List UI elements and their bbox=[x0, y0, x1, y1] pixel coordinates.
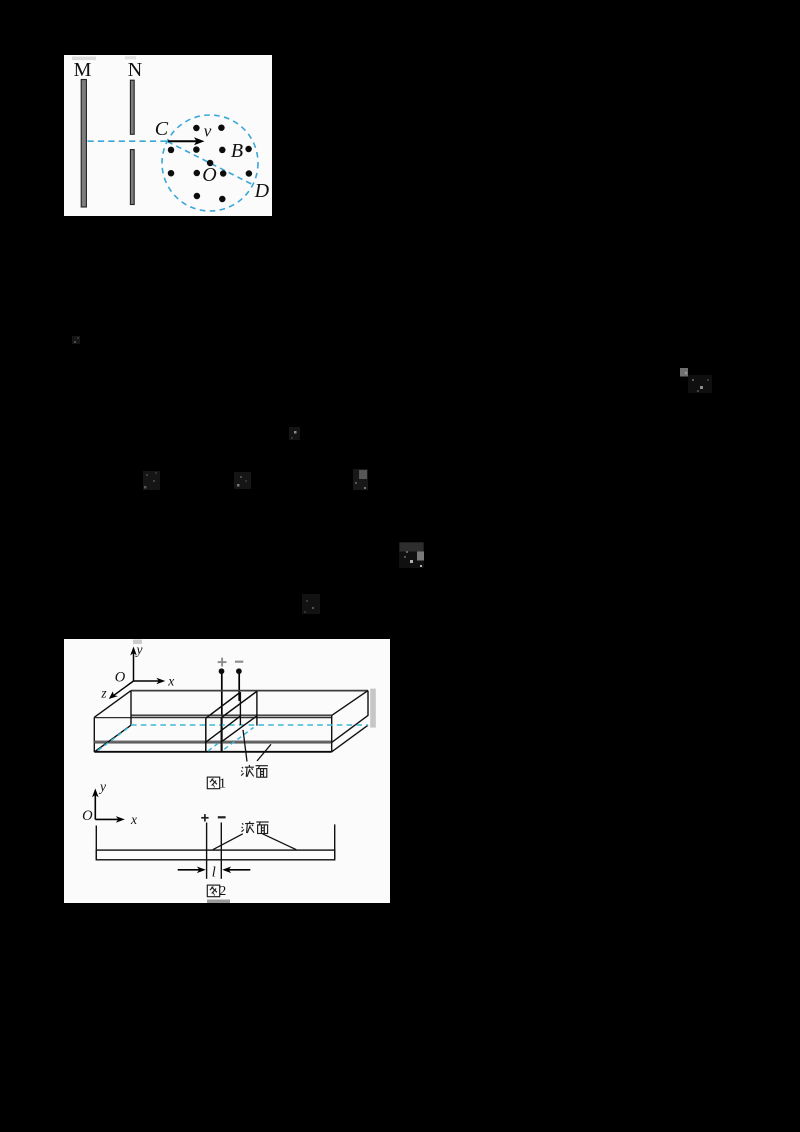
box front-top edge band fill bbox=[131, 716, 332, 717]
fig2 minus symbol bbox=[218, 816, 226, 818]
panel 2 (figure 1 and figure 2) bbox=[64, 639, 390, 903]
svg-text:O: O bbox=[82, 808, 93, 824]
smudge mark mid bbox=[289, 427, 300, 440]
box right-top slant edge bbox=[332, 691, 368, 716]
fig1 y-axis bbox=[133, 651, 135, 681]
fig2 dimension arrow right bbox=[228, 869, 250, 871]
left plate bottom slant edge bbox=[206, 716, 241, 742]
minus wire down to plate bbox=[238, 674, 240, 701]
liquid surface dashed slant at left wall bbox=[98, 726, 131, 750]
fig1 label 液面 bbox=[241, 765, 254, 777]
smudge on panel1 top edge right bbox=[125, 56, 136, 59]
svg-text:z: z bbox=[100, 686, 107, 701]
fig1 liquid-surface callout line left bbox=[243, 730, 247, 762]
svg-text:O: O bbox=[202, 164, 216, 186]
smudge mark row1 bbox=[72, 336, 80, 344]
svg-text:x: x bbox=[130, 812, 137, 827]
svg-text:l: l bbox=[212, 865, 216, 881]
electrode plus symbol bbox=[218, 658, 227, 667]
fig2 dimension arrow left bbox=[178, 869, 200, 871]
dashed chord line C to D bbox=[168, 142, 254, 185]
velocity arrow v bbox=[168, 140, 198, 142]
fig1 liquid-surface callout line right bbox=[257, 744, 271, 761]
left plate back edge bbox=[239, 692, 241, 725]
svg-text:y: y bbox=[135, 642, 143, 657]
svg-text:D: D bbox=[254, 180, 270, 202]
right plate bottom slant edge bbox=[221, 716, 257, 742]
plate M bbox=[81, 80, 86, 208]
smudge mark mid-right block bbox=[399, 542, 424, 568]
smudge gray streak right of box bbox=[370, 689, 376, 728]
liquid surface dashed line at back wall bbox=[131, 724, 368, 726]
smudge mark row2 c bbox=[353, 469, 368, 490]
box right-mid slant edge bbox=[332, 715, 368, 742]
smudge on panel1 top edge left bbox=[72, 57, 96, 61]
svg-text:O: O bbox=[115, 670, 126, 686]
svg-text:x: x bbox=[167, 673, 174, 688]
svg-text:C: C bbox=[155, 118, 169, 140]
box inner back-bottom edge bbox=[131, 714, 332, 716]
plate N lower segment bbox=[130, 150, 134, 205]
svg-text:y: y bbox=[98, 779, 106, 794]
plate N upper segment bbox=[130, 80, 134, 134]
svg-text:M: M bbox=[74, 59, 92, 81]
box inner floor front band fill bbox=[94, 742, 331, 743]
panel 1 (accelerating plates and field region) bbox=[64, 55, 272, 216]
smudge mark row2 b bbox=[234, 472, 251, 489]
dashed beam line from M through slit N to C bbox=[88, 140, 168, 142]
smudge on panel2 top edge bbox=[133, 640, 142, 645]
svg-text:N: N bbox=[128, 59, 142, 81]
box left-bottom slant edge bbox=[94, 725, 131, 752]
right plate back edge bbox=[256, 691, 258, 725]
box inner floor front line lower bbox=[94, 742, 331, 744]
right plate front edge bbox=[220, 718, 222, 752]
fig1 x-axis bbox=[134, 680, 161, 682]
box front-top edge bbox=[94, 717, 331, 719]
right plate top slant edge bbox=[221, 691, 257, 717]
box back-left vertical edge bbox=[130, 691, 132, 726]
svg-text:1: 1 bbox=[219, 777, 226, 792]
box right-bottom slant edge bbox=[332, 725, 368, 752]
dashed field-region circle B bbox=[162, 115, 258, 211]
fig2 plus symbol bbox=[201, 814, 208, 821]
plus terminal dot bbox=[219, 668, 225, 674]
fig2 electrode line plus bbox=[206, 823, 208, 879]
left plate front edge bbox=[205, 718, 207, 752]
svg-text:B: B bbox=[231, 140, 243, 162]
liquid surface dashed slant right of plates bbox=[224, 728, 253, 750]
smudge on panel2 bottom edge bbox=[207, 900, 230, 904]
fig2 electrode line minus bbox=[220, 823, 222, 879]
fig2 liquid-surface callout line right bbox=[263, 834, 297, 850]
box inner floor front line upper bbox=[94, 740, 331, 742]
fig2 caption 图2 bbox=[207, 885, 219, 897]
fig2 left wall bbox=[95, 826, 97, 860]
smudge mark top-right bbox=[680, 368, 712, 393]
box front-right vertical edge bbox=[331, 715, 333, 751]
fig2 liquid-surface callout line left bbox=[213, 834, 243, 850]
fig2 bottom strip bbox=[96, 850, 334, 860]
box back-right vertical edge bbox=[367, 691, 369, 716]
liquid surface dashed slant between plates bbox=[208, 741, 221, 751]
electrode minus symbol bbox=[235, 661, 243, 663]
plus wire down to plate bbox=[221, 674, 223, 752]
smudge mark lower bbox=[302, 594, 320, 614]
box left-top slant edge bbox=[94, 691, 131, 718]
box front-left vertical edge bbox=[93, 717, 95, 752]
fig1 z-axis bbox=[53, 681, 134, 694]
left plate top slant edge bbox=[206, 692, 241, 718]
box back-top edge bbox=[131, 690, 368, 692]
fig2 y-axis bbox=[94, 793, 96, 819]
svg-text:2: 2 bbox=[219, 884, 226, 899]
box front-bottom edge bbox=[94, 751, 331, 753]
minus terminal dot bbox=[236, 668, 242, 674]
fig2 label 液面 bbox=[242, 821, 255, 833]
field dots grid bbox=[168, 124, 252, 202]
smudge mark row2 a bbox=[143, 471, 160, 490]
fig2 x-axis bbox=[95, 818, 119, 820]
fig1 caption 图1 bbox=[207, 777, 219, 789]
svg-text:v: v bbox=[204, 122, 212, 141]
fig2 right wall bbox=[334, 824, 336, 859]
